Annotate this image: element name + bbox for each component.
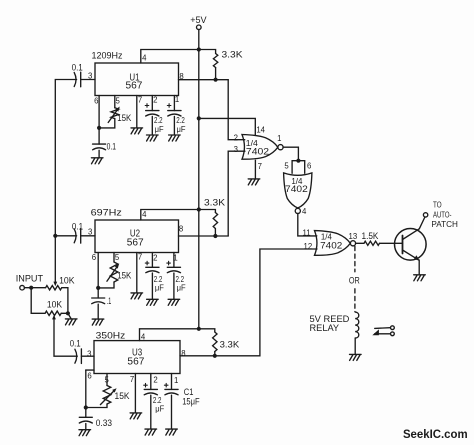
wire U1 pin4 to +5V rail and resistor R1 top (141, 50, 216, 64)
wire U2 pin4 to +5V rail and R2 top (141, 210, 216, 221)
pin labels U1 (88, 53, 184, 105)
op IC U1 567 tone decoder box (95, 63, 179, 96)
svg-text:567: 567 (127, 357, 144, 368)
resistor top 10K (46, 286, 62, 290)
NOR gate U4c 1/4 7402 (315, 231, 351, 256)
svg-text:10K: 10K (47, 300, 62, 310)
wire U1 pin8 to gate A input 2 (228, 80, 245, 140)
wire U3 pin4 to +5V rail and R3 top (140, 329, 215, 341)
svg-text:7402: 7402 (246, 147, 269, 158)
svg-text:7: 7 (258, 162, 262, 171)
svg-text:6: 6 (307, 162, 311, 171)
node left rail / U2 cap branch (53, 234, 57, 238)
svg-text:8: 8 (179, 72, 183, 81)
svg-text:8: 8 (179, 225, 183, 234)
potentiometer U3 15K (100, 386, 116, 405)
ground U3 pin7 (130, 413, 142, 419)
wire U2 pin7 (136, 253, 138, 293)
wire gate C output to 1.5K (356, 242, 364, 244)
capacitor U1 0.1 under pin6 (93, 128, 106, 157)
capacitor U3 pin1 C1 15uF (164, 374, 178, 429)
svg-text:0.1: 0.1 (72, 62, 83, 72)
svg-text:6: 6 (94, 96, 98, 105)
svg-text:0.1: 0.1 (107, 141, 116, 151)
svg-text:1: 1 (277, 134, 281, 143)
capacitor U3 0.33 under pin6 (79, 408, 92, 430)
resistor bottom 10K (45, 311, 61, 315)
svg-text:μF: μF (155, 404, 164, 414)
svg-text:6: 6 (87, 371, 91, 380)
svg-text:RELAY: RELAY (310, 323, 340, 333)
svg-text:3.3K: 3.3K (220, 339, 240, 349)
svg-text:.1: .1 (107, 296, 112, 306)
svg-text:6: 6 (92, 253, 96, 262)
svg-text:567: 567 (126, 80, 143, 91)
wire U2 pin3 (81, 235, 95, 237)
svg-text:μF: μF (155, 124, 164, 134)
wire U1 pin7 (136, 96, 138, 128)
wire input to node (24, 287, 31, 289)
node U1 pin6 junction (97, 126, 101, 130)
output bubble gate C (350, 241, 355, 246)
svg-text:μF: μF (177, 283, 186, 293)
node U3 pin8 / R3 junction (213, 354, 217, 358)
capacitor U2 .1 under pin6 (92, 288, 105, 319)
svg-text:+5V: +5V (190, 15, 207, 26)
ground U2 pin7 (131, 293, 143, 299)
wire gate A pin14 from +5V rail (199, 118, 256, 134)
svg-text:15K: 15K (115, 391, 130, 401)
wiper arrowhead onto lower 10K (52, 315, 56, 320)
svg-text:0.1: 0.1 (70, 339, 81, 349)
svg-text:2: 2 (153, 95, 157, 104)
svg-text:1209Hz: 1209Hz (92, 50, 123, 61)
wire R2 bottom to U2 pin8 node (214, 229, 216, 237)
svg-text:15μF: 15μF (182, 396, 200, 406)
wire 10K-b right to node (61, 312, 68, 314)
svg-text:5: 5 (284, 162, 289, 171)
svg-text:7: 7 (138, 95, 142, 104)
ground U2 pin1 cap (168, 299, 180, 305)
svg-text:5: 5 (105, 376, 110, 385)
svg-text:567: 567 (127, 238, 144, 249)
svg-text:3.3K: 3.3K (204, 198, 225, 208)
node rail-U3 pin4 junction (197, 327, 201, 331)
wire U2 pin8 to gate A input 3 (228, 151, 245, 236)
node U1 pin8 / R1 junction (214, 78, 218, 82)
wire emitter down (418, 260, 420, 274)
svg-text:1: 1 (173, 254, 177, 263)
wire U3 pin7 (134, 374, 136, 413)
wire R1 bottom to U1 pin8 node (215, 68, 217, 80)
ground U1 pin2 cap (147, 135, 159, 141)
ground U1 0.1 cap (91, 158, 103, 164)
wire U3 pin6 (85, 370, 87, 407)
node 10K right junction (66, 311, 70, 315)
svg-text:11: 11 (302, 229, 310, 238)
svg-text:3.3K: 3.3K (222, 49, 243, 59)
wire input node down to 10K-b left end (31, 288, 45, 314)
svg-text:10K: 10K (59, 276, 74, 286)
wire gate B input stub 6 (304, 161, 306, 174)
ground Q1 emitter (414, 275, 426, 281)
svg-text:1: 1 (174, 376, 178, 385)
pin labels U2 (88, 210, 183, 262)
resistor R2 3.3K (213, 213, 217, 229)
output bubble gate A (278, 145, 283, 150)
svg-text:3: 3 (88, 71, 92, 80)
wire U2 pin6 (97, 253, 99, 288)
wire lower 10K wiper to U3 cap (54, 318, 77, 356)
capacitor U2 pin2 2.2uF (145, 253, 159, 299)
pin labels U3 (87, 332, 185, 384)
svg-text:5: 5 (116, 96, 121, 105)
svg-text:697Hz: 697Hz (91, 208, 122, 219)
ground U3 pin2 cap (145, 429, 157, 435)
svg-text:2: 2 (153, 376, 157, 385)
svg-text:8: 8 (181, 349, 185, 358)
transistor Q1 (395, 229, 427, 261)
wire left rail from U1 cap to 10K wiper (55, 80, 76, 282)
svg-text:2: 2 (153, 254, 157, 263)
svg-text:INPUT: INPUT (16, 273, 44, 283)
svg-text:7: 7 (130, 375, 134, 384)
node U3 pin6 junction (84, 405, 88, 409)
ground U2 .1 cap (92, 319, 104, 325)
node rail-U2 pin4 junction (197, 207, 201, 211)
wire gate B input stub 5 (291, 161, 293, 174)
wire node to ground (68, 313, 71, 318)
node input junction (29, 286, 33, 290)
capacitor U2 pin1 2.2uF (167, 253, 181, 299)
wire gate A output to gate B inputs (283, 147, 298, 161)
wire U2 pin8 (179, 235, 229, 237)
capacitor U2 input 0.1 (74, 229, 81, 244)
wire U2 pot bottom to pin6 node (98, 282, 114, 288)
wire +5V stem (198, 30, 200, 50)
inductor 5V reed relay coil (355, 312, 359, 338)
resistor R4 1.5K (364, 241, 380, 245)
resistor R1 3.3K (213, 54, 217, 68)
ground U3 pin1 cap (166, 429, 178, 435)
wire U2 pin5 (113, 253, 115, 263)
op IC U2 567 tone decoder box (95, 220, 179, 253)
capacitor U1 pin2 2.2uF (145, 96, 159, 135)
svg-text:14: 14 (256, 126, 265, 135)
wire 1.5K to transistor base (380, 242, 403, 244)
wire U3 pin5 (106, 374, 108, 386)
capacitor U3 pin2 2.2uF (144, 374, 158, 429)
svg-text:5: 5 (115, 253, 120, 262)
node U2 pin6 junction (96, 286, 100, 290)
svg-text:4: 4 (142, 210, 147, 219)
terminal to auto-patch (423, 213, 427, 217)
svg-text:3: 3 (234, 145, 238, 154)
wire relay coil to ground (354, 338, 356, 354)
svg-text:7402: 7402 (320, 241, 342, 252)
svg-text:3: 3 (88, 228, 92, 237)
wire R3 bottom to U3 pin8 node (214, 352, 216, 356)
resistor R3 3.3K (213, 332, 217, 351)
+5V supply terminal (197, 25, 202, 30)
svg-text:0.33: 0.33 (96, 418, 112, 428)
NOR gate U4a 1/4 7402 (242, 135, 278, 160)
node rail-gateA pin14 junction (197, 116, 201, 120)
wire input node to 10K-a (31, 287, 45, 289)
svg-text:1.5K: 1.5K (362, 231, 379, 241)
potentiometer U2 15K (107, 262, 119, 282)
svg-text:1: 1 (175, 95, 179, 104)
svg-text:μF: μF (155, 283, 164, 293)
output bubble gate B (295, 208, 300, 213)
ground 10K network (65, 319, 77, 325)
wire gate A pin7 ground stub (254, 160, 256, 178)
capacitor U1 pin1 2.2uF (167, 96, 181, 135)
wire gate B input bar (292, 160, 305, 162)
wire U3 pin8 to gate C input 12 (180, 249, 317, 356)
svg-text:0.1: 0.1 (72, 221, 83, 231)
ground gate A pin7 (248, 179, 260, 185)
wire U3 pot bottom to pin6 node (86, 404, 107, 408)
node U2 pin8 / R2 junction (213, 234, 217, 238)
wire U1 pin3 (81, 79, 95, 81)
wire U1 pin5 (114, 96, 116, 108)
ground U2 pin2 cap (147, 299, 159, 305)
svg-text:2: 2 (234, 133, 238, 142)
ground U3 0.33 cap (79, 430, 91, 436)
wire U1 pot bottom to pin6 node (99, 119, 115, 128)
wire U1 pin8 (179, 79, 229, 81)
svg-text:7: 7 (138, 252, 142, 261)
svg-text:TO: TO (433, 201, 442, 210)
NOR gate U4b 1/4 7402 (284, 173, 312, 208)
wire left rail branch to U2 cap (55, 235, 76, 237)
svg-text:4: 4 (142, 53, 147, 62)
svg-text:15K: 15K (117, 113, 131, 123)
svg-text:15K: 15K (117, 270, 131, 280)
svg-text:7402: 7402 (285, 184, 308, 194)
pin labels gates (234, 126, 358, 252)
capacitor U3 input 0.1 (75, 349, 82, 364)
wiper arrowhead onto top 10K (53, 282, 57, 287)
svg-text:4: 4 (141, 332, 146, 341)
wire +5V rail (198, 50, 200, 329)
wire dashed OR branch upper (354, 246, 356, 271)
svg-text:12: 12 (304, 242, 313, 251)
svg-text:350Hz: 350Hz (96, 331, 126, 342)
svg-text:SeekIC.com: SeekIC.com (403, 427, 468, 441)
wire U3 pin3 (81, 355, 94, 357)
ground U1 pin7 (131, 128, 143, 134)
svg-text:OR: OR (349, 276, 360, 287)
capacitor U1 input 0.1 (74, 72, 81, 87)
wire gate B output to gate C input 11 (298, 214, 317, 236)
node gate B input tie (296, 159, 300, 163)
svg-text:13: 13 (349, 232, 358, 241)
node +5V rail junction (197, 47, 201, 51)
svg-text:4: 4 (302, 207, 307, 216)
svg-text:μF: μF (177, 124, 186, 134)
op IC U3 567 tone decoder box (94, 341, 180, 374)
ground U1 pin1 cap (169, 135, 181, 141)
reed relay contacts (372, 326, 394, 336)
svg-text:C1: C1 (184, 387, 194, 397)
INPUT terminal (20, 285, 25, 290)
wire collector to auto-patch terminal (419, 217, 425, 229)
svg-text:AUTO-: AUTO- (433, 211, 452, 220)
ground relay coil (350, 354, 362, 360)
wire 10K-a right end down to 10K-b right end (62, 288, 68, 314)
wire dashed OR branch lower (354, 289, 356, 312)
wire U1 pin6 (98, 96, 100, 128)
potentiometer U1 15K (108, 107, 120, 123)
svg-text:PATCH: PATCH (431, 220, 458, 229)
svg-text:3: 3 (87, 350, 91, 359)
